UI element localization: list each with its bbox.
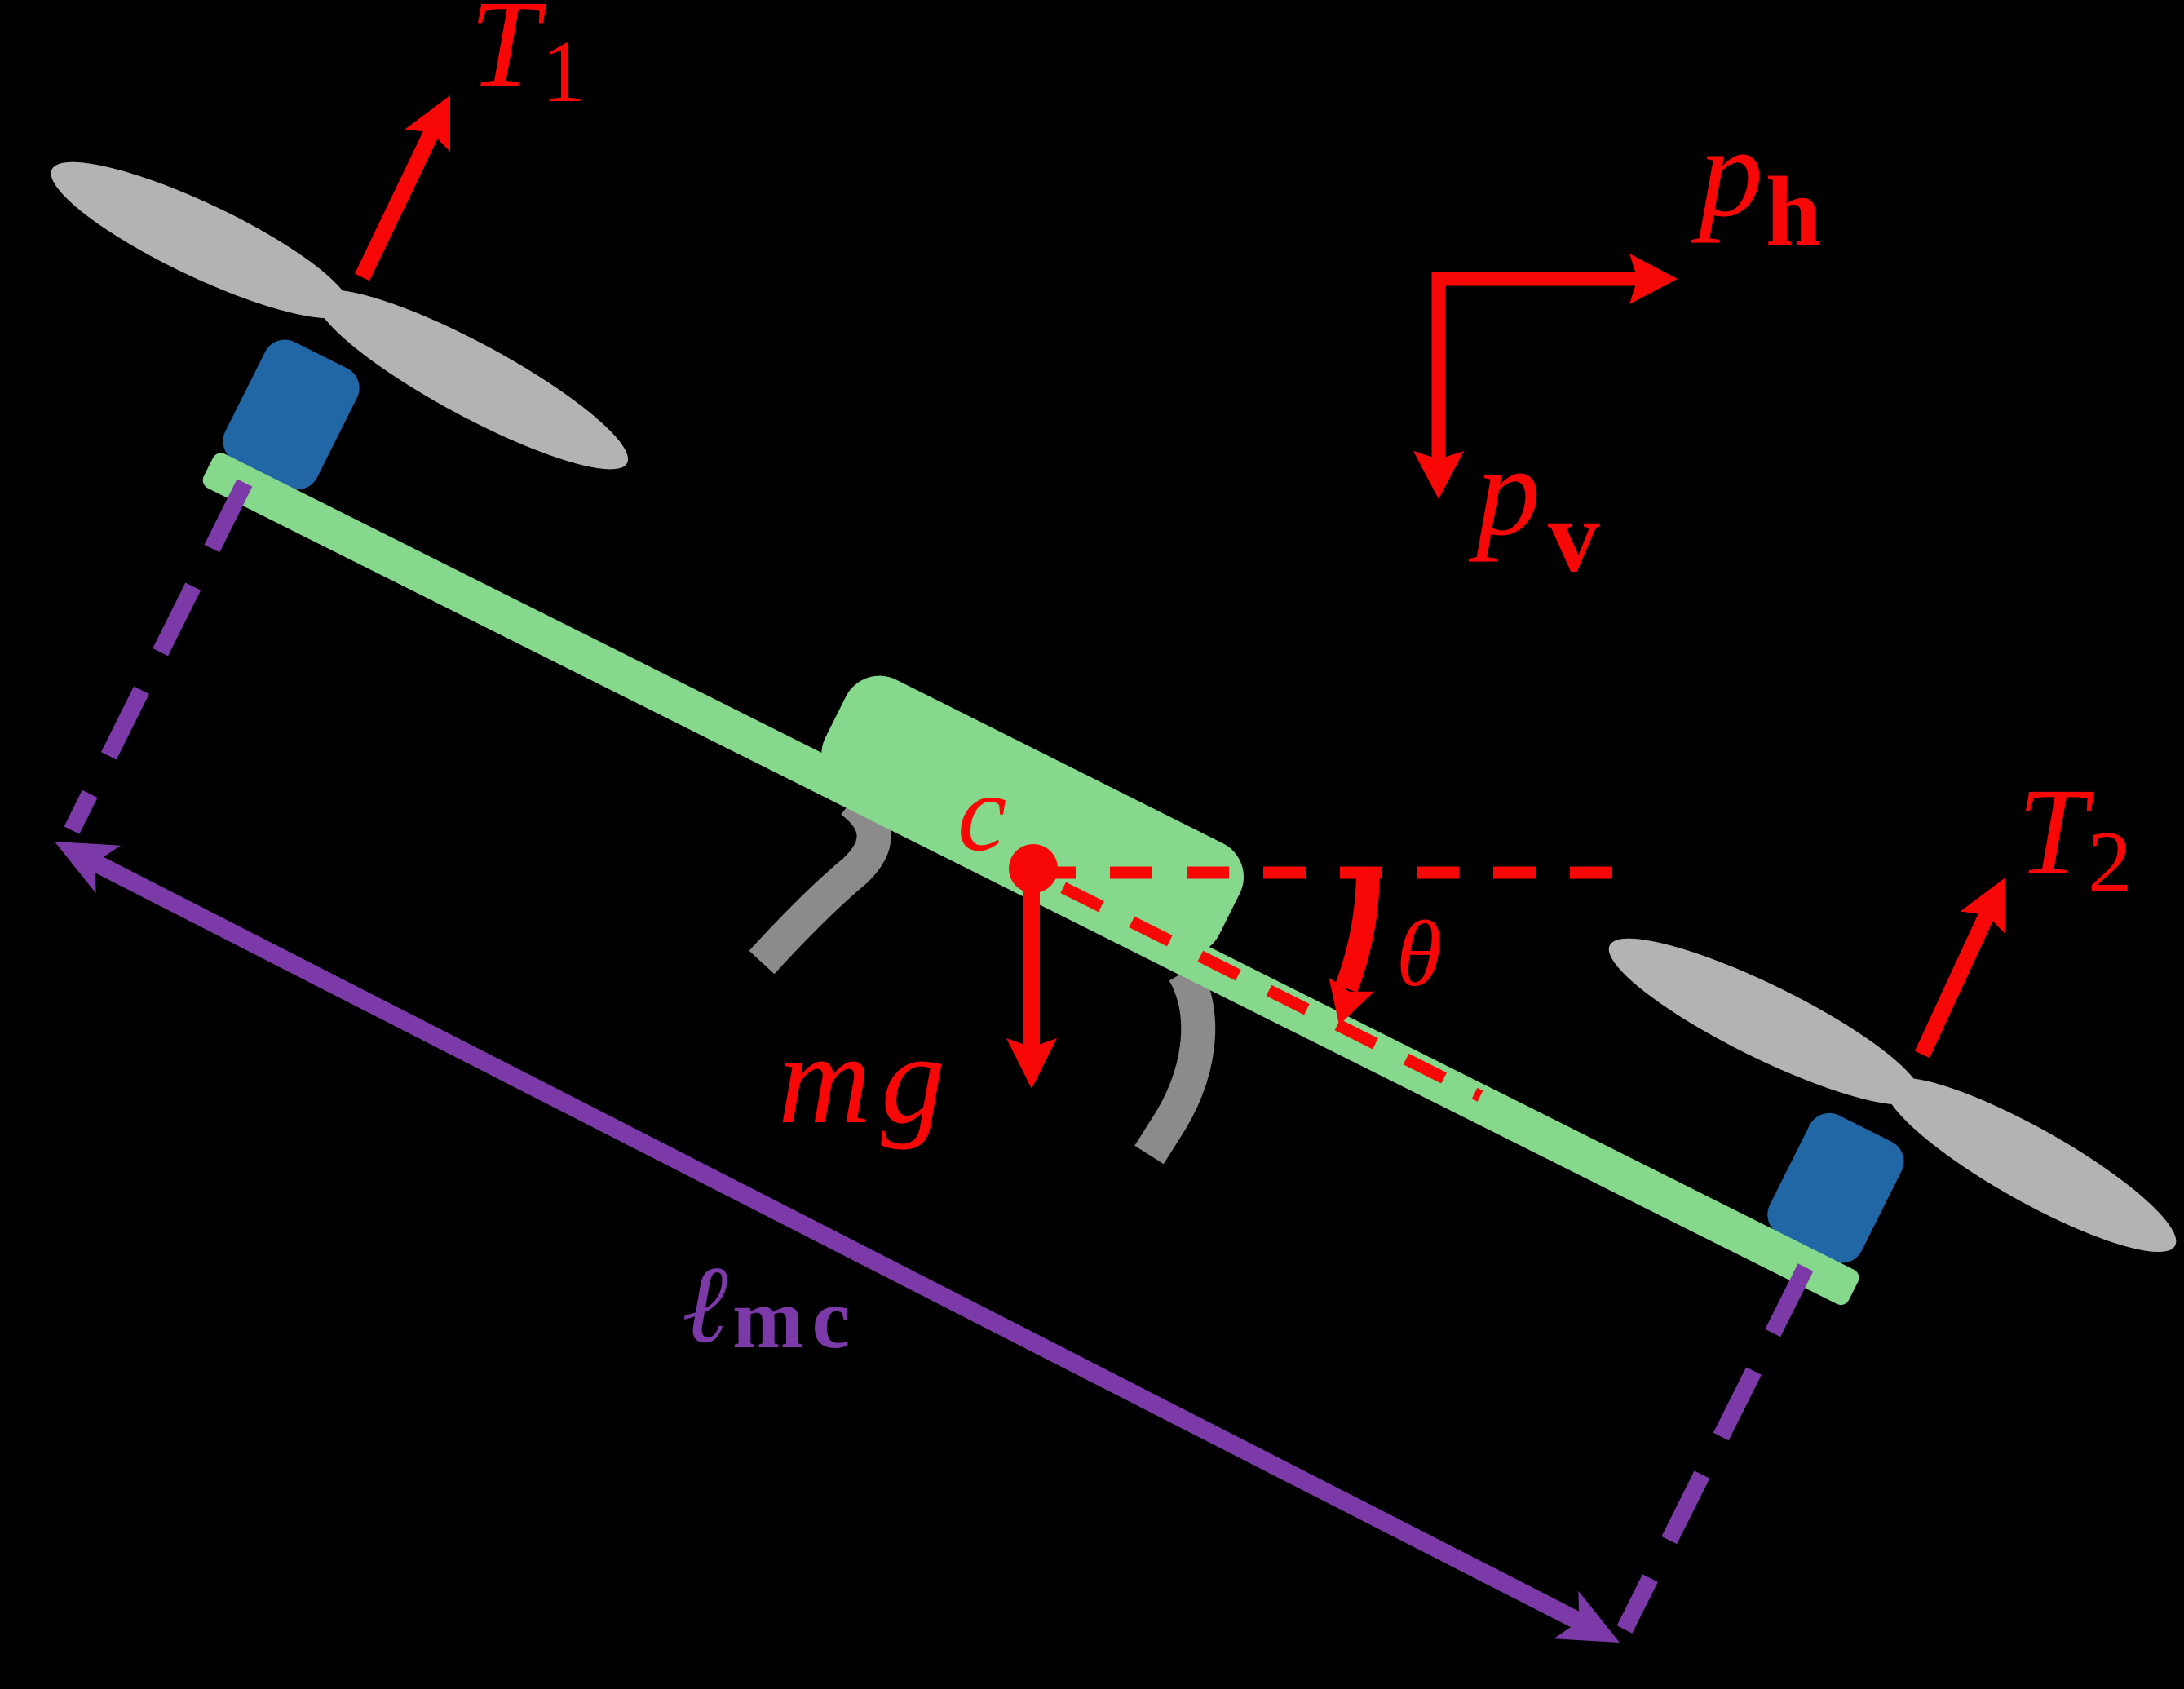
landing leg right (gray) xyxy=(1149,972,1198,1155)
arm (green crossbar) xyxy=(200,450,1862,1308)
svg-text:ℓ: ℓ xyxy=(682,1245,727,1366)
svg-text:h: h xyxy=(1766,157,1821,267)
propeller 1 (left rotor blades) xyxy=(33,130,650,497)
svg-text:mg: mg xyxy=(778,1008,955,1151)
center of mass dot c xyxy=(1009,844,1058,893)
svg-text:c: c xyxy=(957,752,1006,874)
horizontal reference dashed line (red) xyxy=(1033,867,1623,879)
svg-text:v: v xyxy=(1548,480,1599,594)
motor mount 2 (right, blue) xyxy=(1760,1106,1912,1271)
thrust arrow T2 (red) xyxy=(1922,878,2005,1055)
arrowhead left xyxy=(55,842,121,893)
svg-text:T: T xyxy=(470,0,547,113)
body axis dashed line (red) xyxy=(1033,873,1480,1096)
drone rigid parts (rotated by pitch angle theta about c) xyxy=(0,130,2184,1429)
fuselage body (green) xyxy=(809,663,1257,968)
svg-text:T: T xyxy=(2018,763,2095,901)
svg-text:1: 1 xyxy=(542,24,586,121)
gravity arrow mg (red) xyxy=(1006,869,1057,1089)
inertial frame arrows p_h / p_v (red) xyxy=(1413,254,1678,499)
svg-text:θ: θ xyxy=(1396,902,1442,1006)
landing leg left (gray) xyxy=(762,801,874,962)
propeller 2 (right rotor blades) xyxy=(1586,910,2184,1280)
theta arrowhead xyxy=(1329,978,1374,1025)
svg-text:p: p xyxy=(1691,101,1763,244)
extension line left (purple dashed) xyxy=(72,483,245,830)
p_v arrowhead xyxy=(1413,451,1464,499)
motor mount 1 (left, blue) xyxy=(215,332,367,497)
p_h arrowhead xyxy=(1629,254,1678,304)
extension line right (purple dashed) xyxy=(1625,1267,1806,1629)
dimension line l_mc (purple, double arrow) xyxy=(55,842,1620,1643)
svg-text:2: 2 xyxy=(2088,814,2132,911)
svg-text:p: p xyxy=(1468,420,1541,563)
theta angle arc arrow (red) xyxy=(1346,868,1368,988)
arrowhead right xyxy=(1554,1591,1620,1643)
svg-text:mc: mc xyxy=(732,1271,858,1366)
thrust arrow T1 (red) xyxy=(362,95,450,277)
